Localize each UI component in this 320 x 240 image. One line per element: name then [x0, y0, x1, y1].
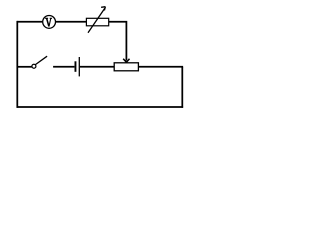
wire top (voltmeter to rheostat R1) [56, 21, 87, 23]
wire switch to battery [53, 66, 74, 68]
voltmeter V1 label (serif V drawn as strokes) [45, 18, 52, 26]
battery B1 positive plate (long thin) [78, 57, 80, 76]
resistor R1 arrowhead [101, 7, 105, 11]
wire bottom horizontal rail [17, 106, 184, 108]
resistor R1 (variable, top) body [86, 18, 108, 26]
battery B1 negative plate (short thick) [75, 61, 77, 72]
wire middle-left (left rail to switch) [17, 66, 31, 68]
resistor R1 arrow shaft [88, 8, 105, 33]
wire battery to rheostat R2 [80, 66, 114, 68]
wire left vertical rail [16, 21, 18, 108]
wire top-left horizontal (corner to voltmeter) [17, 21, 42, 23]
rheostat R2 slider arrowhead [123, 59, 129, 63]
rheostat R2 body [114, 63, 138, 71]
voltmeter V1 circle [43, 16, 56, 29]
wire rheostat R2 to right rail [138, 66, 183, 68]
wire right vertical rail [181, 67, 183, 108]
wire top-right with corner bend down to slider [109, 22, 127, 61]
switch S1 lever [35, 56, 47, 64]
switch S1 pivot circle [32, 64, 36, 68]
